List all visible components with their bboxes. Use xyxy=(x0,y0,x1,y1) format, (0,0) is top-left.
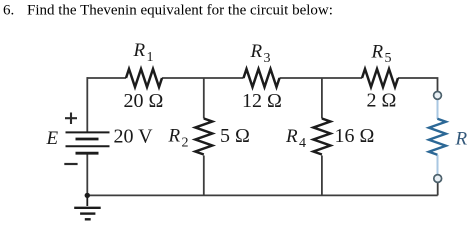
svg-text:5 Ω: 5 Ω xyxy=(220,125,250,147)
wire: top rail segments xyxy=(87,78,437,91)
label R5 xyxy=(371,41,392,66)
svg-text:16 Ω: 16 Ω xyxy=(335,125,375,147)
svg-text:R: R xyxy=(133,40,146,61)
node: ground junction dot xyxy=(85,193,90,198)
svg-text:Find the Thevenin equivalent f: Find the Thevenin equivalent for the cir… xyxy=(27,3,333,19)
resistor R1 xyxy=(126,69,162,87)
svg-text:5: 5 xyxy=(385,51,392,66)
svg-text:1: 1 xyxy=(147,50,154,65)
wire: left branch (source) xyxy=(86,77,88,195)
resistor R3 xyxy=(244,69,280,87)
svg-text:3: 3 xyxy=(264,51,271,66)
resistor R (load, blue) xyxy=(429,119,446,155)
svg-text:4: 4 xyxy=(299,136,306,151)
label E xyxy=(46,128,59,149)
wire: blue lead upper (terminal to R) xyxy=(437,100,439,119)
value 2 Ω xyxy=(367,89,397,111)
svg-text:12 Ω: 12 Ω xyxy=(242,90,282,112)
value 20 V xyxy=(114,126,154,148)
svg-text:R: R xyxy=(371,41,384,62)
svg-text:R: R xyxy=(250,41,263,62)
svg-text:E: E xyxy=(46,128,59,149)
svg-text:2 Ω: 2 Ω xyxy=(367,89,397,111)
value 20 Ω xyxy=(124,90,164,112)
svg-text:2: 2 xyxy=(182,135,189,150)
ground xyxy=(74,195,101,219)
plus sign xyxy=(65,113,77,125)
wire: R2 branch verticals xyxy=(203,78,205,195)
label R (load) xyxy=(455,128,468,149)
wire: bottom rail xyxy=(87,183,437,195)
label R2 xyxy=(168,126,189,151)
svg-text:20 V: 20 V xyxy=(114,126,154,148)
resistor R2 xyxy=(195,119,212,155)
svg-text:R: R xyxy=(168,126,181,147)
resistor R4 xyxy=(313,119,330,155)
minus sign xyxy=(64,163,77,165)
svg-text:20 Ω: 20 Ω xyxy=(124,90,164,112)
node b: lower terminal circle xyxy=(434,175,442,183)
wire: blue lead lower (R to terminal) xyxy=(437,155,439,174)
wire: R4 branch verticals xyxy=(321,78,323,195)
svg-text:R: R xyxy=(285,126,298,147)
label R3 xyxy=(250,41,271,66)
label R1 xyxy=(133,40,154,65)
svg-text:6.: 6. xyxy=(3,3,14,19)
battery source E plates xyxy=(66,132,110,153)
node a: upper terminal circle xyxy=(434,92,442,100)
label R4 xyxy=(285,126,306,151)
value 12 Ω xyxy=(242,90,282,112)
resistor R5 xyxy=(362,69,398,87)
svg-text:R: R xyxy=(455,128,468,149)
value 5 Ω xyxy=(220,125,250,147)
value 16 Ω xyxy=(335,125,375,147)
title text xyxy=(3,3,333,19)
